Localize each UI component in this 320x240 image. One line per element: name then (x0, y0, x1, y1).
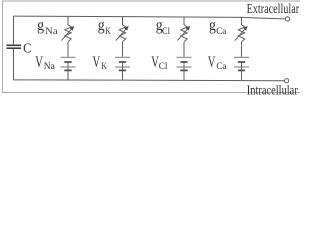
svg-text:g: g (37, 17, 44, 34)
svg-text:Na: Na (45, 26, 57, 36)
svg-text:Extracellular: Extracellular (247, 1, 300, 16)
node extracellular terminal (286, 17, 290, 21)
label C (23, 41, 31, 56)
battery V_K (115, 57, 130, 70)
resistor g_K (variable) (116, 25, 129, 42)
wire top rail (extracellular) (14, 16, 286, 19)
svg-text:g: g (98, 17, 105, 34)
border frame (3, 1, 301, 93)
label g_Na (37, 17, 58, 36)
svg-text:C: C (23, 41, 31, 56)
label V_K (93, 54, 108, 71)
wire branch 2 (K) (122, 17, 124, 80)
wire left branch vertical (13, 16, 15, 80)
svg-text:K: K (101, 61, 107, 71)
battery V_Ca (234, 57, 249, 70)
resistor g_Ca (variable) (235, 25, 248, 42)
svg-text:Intracellular: Intracellular (247, 82, 298, 97)
label g_Ca (209, 17, 226, 36)
svg-text:Ca: Ca (216, 61, 226, 71)
svg-text:Na: Na (44, 61, 55, 71)
label V_Ca (208, 54, 227, 71)
label Intracellular (247, 82, 298, 97)
battery V_Cl (177, 57, 192, 70)
svg-text:Cl: Cl (159, 61, 168, 71)
svg-text:Ca: Ca (216, 26, 226, 36)
resistor g_Cl (variable) (177, 25, 190, 42)
capacitor C (7, 45, 22, 48)
label g_K (98, 17, 111, 36)
label Extracellular (247, 1, 300, 16)
wire branch 4 (Ca) (241, 17, 243, 80)
svg-text:V: V (208, 54, 216, 71)
label g_Cl (156, 17, 171, 36)
svg-text:g: g (209, 17, 216, 34)
wire branch 1 (Na) (67, 16, 69, 80)
wire branch 3 (Cl) (183, 17, 185, 80)
svg-text:K: K (105, 26, 111, 36)
label V_Cl (151, 54, 168, 71)
node intracellular terminal (285, 79, 289, 83)
resistor g_Na (variable) (61, 25, 74, 42)
svg-text:V: V (35, 54, 43, 71)
label V_Na (35, 54, 55, 71)
wire bottom rail (intracellular) (14, 79, 285, 82)
battery V_Na (61, 57, 76, 70)
svg-text:Cl: Cl (162, 26, 170, 36)
svg-text:V: V (93, 54, 101, 71)
